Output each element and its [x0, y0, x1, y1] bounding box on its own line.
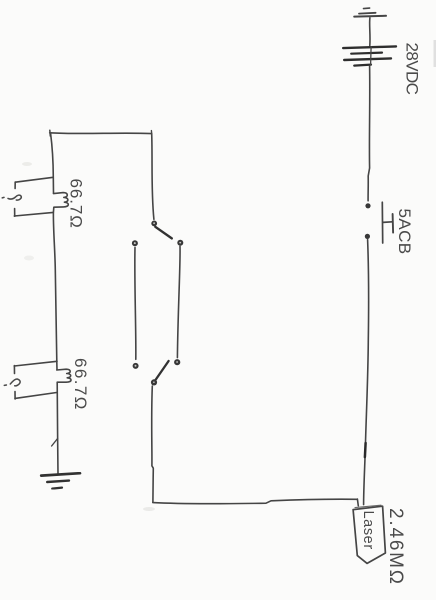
svg-text:2.46MΩ: 2.46MΩ: [385, 508, 406, 586]
svg-text:Laser: Laser: [360, 511, 376, 550]
svg-text:66.7Ω: 66.7Ω: [71, 358, 90, 411]
svg-text:5ACB: 5ACB: [395, 209, 414, 255]
svg-text:66.7Ω: 66.7Ω: [67, 179, 86, 229]
svg-text:28VDC: 28VDC: [403, 43, 422, 95]
